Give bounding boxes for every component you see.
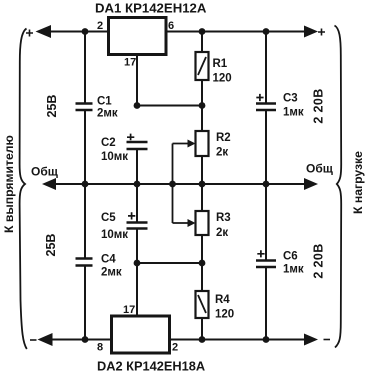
svg-text:120: 120	[213, 73, 232, 85]
capacitor C2 plates	[127, 141, 148, 144]
svg-text:17: 17	[124, 57, 136, 69]
wire C5 top	[136, 184, 138, 222]
right brace (to load bracket)	[335, 26, 342, 348]
node C5 / pin17 junction	[134, 260, 141, 267]
terminal arrow plus (top right)	[304, 26, 318, 38]
wire R1 bottom	[201, 80, 203, 131]
wire C5 bottom	[136, 230, 138, 264]
svg-text:10мк: 10мк	[101, 229, 128, 241]
wiper common vertical wire	[172, 144, 174, 224]
R2 wiper arrow	[173, 143, 190, 145]
svg-text:C1: C1	[97, 96, 112, 108]
wire C5 node to R column	[137, 262, 202, 264]
wire middle rail	[53, 183, 305, 185]
wire R4 bottom	[201, 318, 203, 340]
svg-text:C4: C4	[101, 254, 116, 266]
wire top rail right	[166, 31, 305, 33]
capacitor C1 plates	[76, 102, 93, 105]
capacitor C5 plates	[127, 221, 148, 224]
svg-text:2 20В: 2 20В	[312, 243, 326, 278]
svg-text:Общ: Общ	[31, 165, 59, 179]
wire C3 top	[265, 32, 267, 103]
wire R3 top	[201, 184, 203, 211]
svg-text:C3: C3	[283, 93, 298, 105]
resistor R3 body	[196, 211, 209, 235]
svg-text:8: 8	[97, 342, 103, 354]
left brace (to rectifier bracket)	[20, 29, 27, 350]
wire DA1 pin 17 to node	[136, 55, 138, 106]
node bottom rail / C6 column	[263, 336, 270, 343]
capacitor C2 plus mark	[127, 134, 134, 141]
resistor R4 body	[196, 291, 209, 318]
wire top rail left	[47, 31, 108, 33]
wire R2 bottom	[201, 156, 203, 184]
svg-text:R3: R3	[216, 212, 231, 224]
capacitor C5 plus mark	[128, 212, 135, 219]
svg-text:2: 2	[172, 342, 178, 354]
node bottom rail / R4 column	[199, 336, 206, 343]
svg-text:10мк: 10мк	[101, 151, 128, 163]
wire C3 bottom	[265, 111, 267, 184]
wire C2 bottom	[136, 150, 138, 184]
node pin17/C2 junction	[134, 102, 141, 109]
svg-text:2к: 2к	[216, 147, 228, 159]
node middle rail / C1C4 column	[82, 181, 89, 188]
capacitor C4 plates	[76, 257, 93, 260]
svg-text:2мк: 2мк	[97, 108, 118, 120]
node middle rail / wiper column	[169, 181, 176, 188]
resistor R1 body	[196, 52, 209, 80]
svg-text:R1: R1	[213, 58, 228, 70]
svg-text:17: 17	[123, 304, 135, 316]
wire bottom rail right	[170, 339, 306, 341]
node R1 bottom junction	[199, 102, 206, 109]
wire C1 bottom	[84, 111, 86, 184]
resistor R2 body	[196, 131, 209, 156]
wire R1 top	[201, 32, 203, 53]
IC DA2 KR142EN18A body	[112, 316, 170, 353]
svg-text:C2: C2	[101, 137, 116, 149]
wire C4 top	[84, 184, 86, 258]
IC DA1 KR142EN12A body	[109, 18, 167, 55]
node middle rail / R column	[199, 181, 206, 188]
svg-text:К нагрузке: К нагрузке	[351, 151, 365, 214]
svg-text:К выпрямителю: К выпрямителю	[2, 135, 16, 233]
capacitor C6 plates	[256, 259, 276, 262]
capacitor C3 plates	[256, 102, 276, 105]
svg-text:2 20В: 2 20В	[312, 88, 326, 123]
node top rail / C3 column	[263, 28, 270, 35]
capacitor C6 plus mark	[257, 250, 264, 257]
wire C4 bottom	[84, 267, 86, 340]
svg-text:R4: R4	[215, 294, 230, 306]
svg-text:25В: 25В	[45, 95, 59, 118]
wire R3 bottom	[201, 235, 203, 263]
svg-text:R2: R2	[216, 132, 231, 144]
resistor R4 adjust slash	[198, 295, 206, 313]
svg-text:2к: 2к	[216, 227, 228, 239]
svg-text:6: 6	[168, 20, 174, 32]
svg-text:1мк: 1мк	[283, 264, 304, 276]
svg-text:DA2 КР142ЕН18А: DA2 КР142ЕН18А	[97, 359, 205, 374]
svg-text:DA1 КР142ЕН12А: DA1 КР142ЕН12А	[95, 1, 207, 16]
svg-text:2мк: 2мк	[101, 267, 122, 279]
wire R4 top	[201, 263, 203, 291]
node top rail / R1 column	[199, 28, 206, 35]
svg-text:2: 2	[97, 20, 103, 32]
resistor R1 adjust slash	[198, 57, 206, 75]
terminal arrow minus (bottom right)	[304, 334, 318, 346]
wire C6 top	[265, 184, 267, 260]
svg-text:1мк: 1мк	[283, 107, 304, 119]
wire C6 bottom	[265, 268, 267, 340]
node R3R4 junction	[199, 260, 206, 267]
node middle rail / C2C5 column	[134, 181, 141, 188]
node top rail / C1 column	[82, 28, 89, 35]
svg-text:C6: C6	[283, 251, 298, 263]
svg-text:Общ: Общ	[306, 162, 334, 176]
middle rail Общ left arrow	[42, 178, 56, 190]
node bottom rail / C4 column	[82, 336, 89, 343]
svg-text:25В: 25В	[44, 234, 58, 257]
middle rail Общ right arrow	[304, 178, 318, 190]
terminal arrow plus (top left)	[36, 25, 52, 38]
terminal arrow minus (bottom left)	[38, 333, 53, 346]
wire DA2 pin 17	[136, 263, 138, 316]
wire pin17 node to R column	[137, 105, 202, 107]
svg-text:C5: C5	[101, 212, 116, 224]
wire C1 top	[84, 32, 86, 103]
node middle rail / C3C6 column	[263, 181, 270, 188]
wire bottom rail left	[48, 339, 111, 341]
svg-text:120: 120	[215, 309, 234, 321]
R3 wiper arrow	[173, 222, 190, 224]
capacitor C3 plus mark	[256, 94, 263, 101]
